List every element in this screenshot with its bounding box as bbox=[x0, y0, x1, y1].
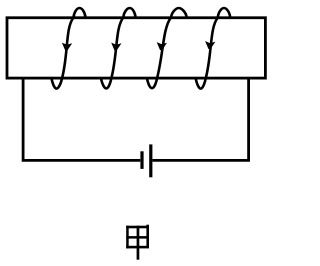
iron core bar body bbox=[7, 18, 265, 78]
coil turn 4 bbox=[196, 8, 231, 89]
current arrow on turn 2 bbox=[111, 43, 121, 51]
battery long plate (positive) bbox=[149, 144, 152, 177]
label jia (figure A) bbox=[126, 225, 149, 260]
coil turn 3 bbox=[147, 8, 187, 88]
wire left lead from core to bottom rail bbox=[23, 79, 140, 160]
battery short plate (negative) bbox=[140, 151, 143, 169]
current arrow on turn 3 bbox=[157, 42, 167, 50]
wire right lead from battery to core bbox=[153, 79, 249, 160]
coil turn 2 bbox=[101, 8, 136, 88]
current arrow on turn 1 bbox=[62, 43, 72, 51]
coil turn 1 bbox=[52, 8, 86, 89]
current arrow on turn 4 bbox=[205, 41, 215, 49]
